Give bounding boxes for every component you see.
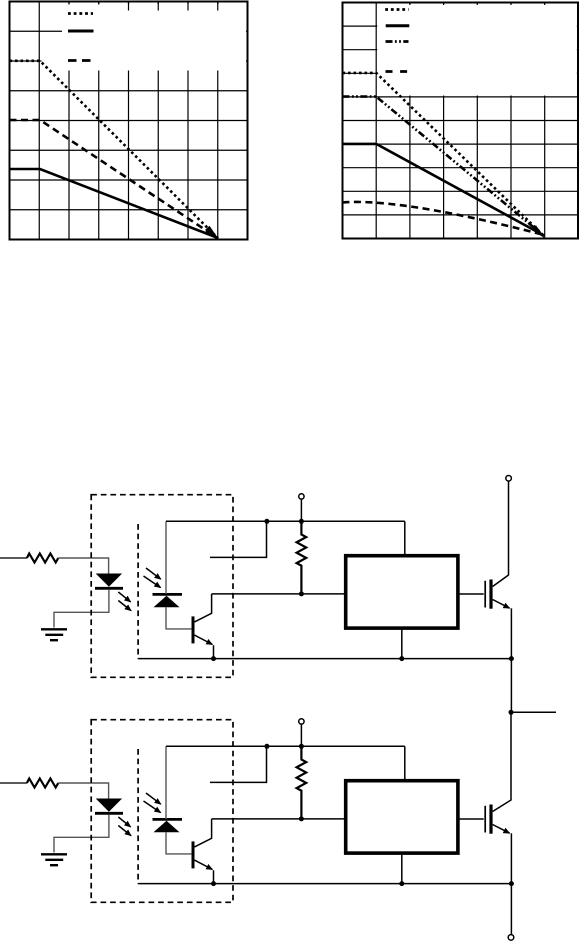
wire R1 to LED anode [58, 558, 108, 574]
wire R3 to LED anode [58, 783, 108, 799]
gridline stubs redraw top [410, 3, 545, 6]
phase node junction dot [509, 710, 514, 715]
photodiode PD2 triangle [154, 821, 180, 832]
outer dashed package box ch2 [91, 720, 233, 903]
wire top rail to B1 top [404, 521, 406, 555]
wire PD2 cathode to top rail [165, 746, 167, 819]
chart border [343, 3, 579, 239]
legend sample dotted [68, 12, 93, 15]
LED D1 cathode bar [95, 587, 123, 590]
IGBT Q4 emitter with arrow [493, 825, 510, 834]
grid horizontal lines [10, 31, 248, 210]
gridline stub redraw top long [129, 2, 218, 11]
resistor R3 [27, 779, 58, 788]
legend sample dotted [385, 8, 408, 11]
IGBT Q2 emitter with arrow [493, 600, 510, 609]
IGBT Q4 gate bar [484, 806, 486, 833]
CHART 2 (right derating graph) [343, 3, 579, 239]
junction dot bottom rail / IGBT emitter [509, 656, 514, 661]
grid horizontal lines [343, 26, 579, 215]
internal hanging line ch2 [210, 746, 267, 782]
IGBT Q2 gate bar [484, 581, 486, 608]
pull-up resistor R4 [297, 746, 307, 819]
legend white box [42, 4, 247, 71]
wire PD2 anode to Q3 base [166, 832, 191, 854]
IGBT Q2 emitter wire down [510, 608, 512, 658]
wire B2 bottom to bottom rail [401, 853, 403, 884]
IGBT Q4 collector from phase node [493, 712, 511, 811]
input wire ch1 [0, 557, 27, 559]
legend sample dash-dot-dot [386, 40, 409, 43]
outer dashed package box ch1 [91, 495, 233, 678]
junction dot top rail / internal [264, 744, 269, 749]
driver box B2 [346, 781, 458, 853]
emitter terminal T4 [508, 935, 514, 941]
wire LED cathode to ground [54, 815, 109, 853]
curve solid [343, 144, 545, 236]
IGBT Q2 collector [493, 481, 509, 586]
Q3 collector [195, 819, 212, 847]
supply terminal T1 [299, 494, 304, 499]
phototransistor Q1 base bar [192, 616, 195, 643]
curve dashed [10, 120, 219, 238]
legend sample solid [386, 24, 410, 27]
gridline stub redraw top short [69, 2, 99, 5]
curve convergence arrowhead [205, 226, 219, 239]
grid vertical lines [39, 2, 218, 240]
wire to phase node [510, 659, 512, 713]
photodiode incoming light arrows [146, 793, 161, 804]
Q1 emitter wire down [213, 645, 215, 658]
curve dotted [343, 73, 545, 236]
junction dot top rail / internal [264, 519, 269, 524]
legend white box [377, 4, 577, 96]
wire PD1 anode to Q1 base [166, 607, 191, 629]
IGBT Q2 channel bar [489, 580, 492, 609]
IGBT Q4 channel bar [489, 805, 492, 834]
Q3 emitter wire down [213, 870, 215, 883]
photodiode PD2 cathode bar [153, 818, 183, 821]
CIRCUIT upper channel [0, 476, 556, 715]
resistor R1 [27, 554, 58, 563]
mid rail ch1 [212, 593, 346, 595]
driver box B1 [346, 556, 458, 628]
curve dashed [343, 202, 545, 235]
junction dot mid rail / R2 [299, 591, 304, 596]
curve dash-dot-dot [343, 97, 545, 236]
photodiode PD1 cathode bar [153, 593, 183, 596]
wire top rail to B2 top [404, 746, 406, 780]
ground G1 [41, 629, 67, 640]
phototransistor Q3 base bar [192, 841, 195, 868]
supply terminal T3 [299, 719, 304, 724]
junction dot bottom rail / B1 [399, 656, 404, 661]
gridline row segment left of legend [42, 30, 63, 32]
wire B1 bottom to bottom rail [401, 628, 403, 659]
wire LED cathode to ground [54, 590, 109, 628]
Q1 emitter with arrow [195, 635, 213, 644]
gate wire B2 to Q4 [458, 818, 484, 820]
junction dot bottom rail / B2 [399, 881, 404, 886]
junction dot bottom rail / IGBT emitter [509, 881, 514, 886]
collector terminal T2 [506, 476, 512, 482]
LED D2 cathode bar [95, 812, 123, 815]
junction dot bottom rail / Q1 emitter [211, 656, 216, 661]
top rail ch2 [166, 745, 405, 747]
LED emission arrows [118, 592, 130, 602]
LED emission arrows [118, 817, 130, 827]
mid rail ch2 [212, 818, 346, 820]
LED D1 triangle [96, 574, 122, 587]
grid vertical lines [376, 3, 545, 239]
Q3 emitter with arrow [195, 860, 213, 869]
wire PD1 cathode to top rail [165, 521, 167, 594]
legend sample dashed [386, 70, 408, 73]
junction dot top rail / supply [299, 519, 304, 524]
internal hanging line ch1 [210, 521, 267, 557]
chart border [10, 2, 248, 240]
junction dot top rail / supply [299, 744, 304, 749]
wire T1 to rail [300, 499, 302, 521]
inner dashed partition ch1 [137, 524, 139, 659]
wire to emitter terminal [510, 884, 512, 935]
curve dotted [10, 61, 219, 239]
photodiode incoming light arrows [146, 568, 161, 579]
ground G2 [41, 854, 67, 865]
LED D2 triangle [96, 799, 122, 812]
input wire ch2 [0, 782, 27, 784]
curve convergence arrowhead [532, 225, 546, 238]
junction dot mid rail / R4 [299, 816, 304, 821]
junction dot bottom rail / Q3 emitter [211, 881, 216, 886]
wire T3 to rail [300, 724, 302, 746]
legend sample dashed [68, 59, 91, 62]
output stub wire [511, 711, 556, 713]
CHART 1 (left derating graph) [10, 2, 248, 240]
photodiode PD1 triangle [154, 596, 180, 607]
legend sample solid [68, 30, 94, 33]
pull-up resistor R2 [297, 521, 307, 594]
bottom rail ch1 [138, 658, 511, 660]
CIRCUIT lower channel [0, 712, 514, 940]
inner dashed partition ch2 [137, 749, 139, 884]
curve solid [10, 169, 219, 238]
gate wire B1 to Q2 [458, 593, 484, 595]
top rail ch1 [166, 520, 405, 522]
bottom rail ch2 [138, 883, 511, 885]
Q1 collector [195, 594, 212, 622]
IGBT Q4 emitter wire down [510, 833, 512, 883]
